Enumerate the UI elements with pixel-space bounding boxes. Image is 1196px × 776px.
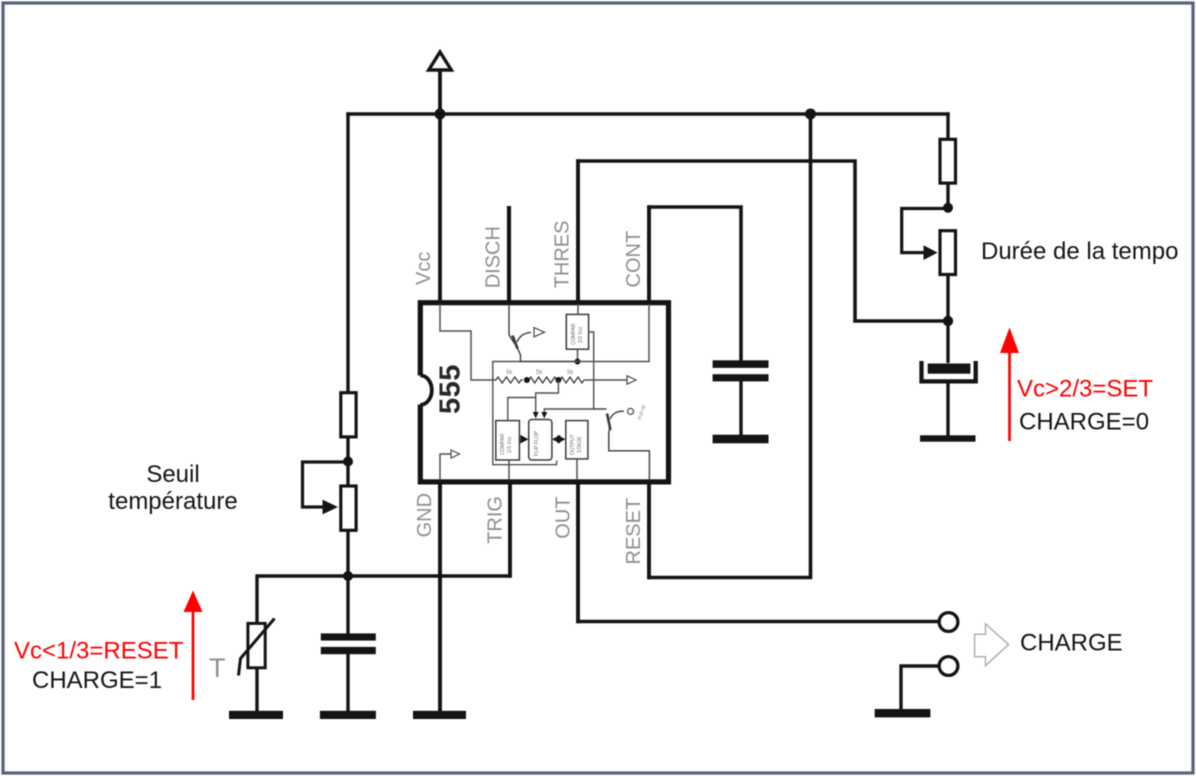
- block arrow: [975, 624, 1009, 666]
- wire: P1 to node: [346, 530, 349, 578]
- wire: C3 to ground: [946, 382, 949, 437]
- wire: U2 top hook: [508, 398, 536, 421]
- svg-text:COMPAR: COMPAR: [500, 433, 506, 455]
- svg-text:Vc>2/3=SET: Vc>2/3=SET: [1017, 376, 1153, 403]
- node: THRES/C3 junction: [943, 316, 953, 326]
- wire: CONT pin up over to C2: [647, 205, 651, 302]
- thermistor RT: [239, 619, 275, 676]
- resistor divider Rb: [529, 377, 557, 383]
- Q1 arrowhead: [534, 328, 545, 337]
- wire: RESET pin loop to supply rail: [647, 482, 651, 579]
- svg-text:2/3 Vcc: 2/3 Vcc: [578, 326, 584, 343]
- node: trigger rail junction: [343, 571, 353, 581]
- wire: GND pin internal arrow: [440, 454, 451, 480]
- resistor divider Rc: [560, 377, 586, 383]
- potentiometer P2 wiper: [902, 209, 948, 261]
- potentiometer P2: [940, 231, 956, 275]
- flip-flop U3 box: [529, 420, 552, 461]
- ground (terminal): [875, 709, 931, 717]
- svg-text:GND: GND: [414, 493, 436, 537]
- wire: OUT from U4: [576, 459, 578, 480]
- wire: C1 top: [346, 576, 349, 635]
- red arrow left: [184, 591, 203, 701]
- wire: thermistor to ground: [255, 668, 258, 712]
- wire: node to C3: [946, 320, 949, 363]
- capacitor C2: [713, 360, 769, 381]
- svg-text:Vc<1/3=RESET: Vc<1/3=RESET: [14, 638, 184, 665]
- Vcc supply symbol: [429, 52, 452, 70]
- wire: TRIG pin down: [508, 482, 512, 578]
- wire: U1 to CONT node: [577, 349, 579, 361]
- svg-text:1/3 Vcc: 1/3 Vcc: [507, 436, 513, 453]
- svg-text:5k: 5k: [536, 370, 543, 376]
- wire: trigger rail horizontal: [257, 574, 510, 577]
- ground (thermistor): [229, 711, 283, 719]
- svg-text:555: 555: [435, 364, 467, 414]
- IC 555 body: [420, 303, 668, 482]
- node: supply/Vcc junction: [435, 109, 446, 120]
- wire: reference to comparator loop: [493, 362, 578, 465]
- node: R2/P2 junction: [943, 203, 953, 213]
- svg-text:CHARGE=0: CHARGE=0: [1019, 409, 1149, 436]
- svg-text:Vcc: Vcc: [413, 252, 435, 285]
- potentiometer P1: [341, 486, 356, 530]
- svg-text:TRIG: TRIG: [485, 496, 507, 544]
- wire: right branch to R2: [946, 112, 949, 139]
- wire: THRES into U1: [577, 304, 579, 314]
- svg-text:OUTPUT: OUTPUT: [570, 434, 576, 455]
- node: CONT reference: [575, 359, 581, 365]
- svg-text:DISCH: DISCH: [483, 226, 505, 288]
- svg-text:5k: 5k: [567, 370, 574, 376]
- resistor divider Ra: [496, 377, 523, 383]
- svg-text:OUT: OUT: [553, 496, 575, 538]
- svg-text:THRES: THRES: [552, 221, 574, 289]
- wire: top supply rail: [346, 112, 949, 115]
- wire: divider tail to arrow: [586, 379, 627, 381]
- resistor R2: [940, 139, 956, 183]
- wire: left branch vertical to R1: [346, 112, 349, 392]
- IC internals: [440, 304, 649, 480]
- node: divider 2/3: [524, 377, 530, 383]
- wire: Vcc pin vertical: [438, 68, 442, 302]
- svg-text:RESET: RESET: [623, 498, 645, 565]
- capacitor C3 polarized: [922, 361, 976, 381]
- capacitor C1: [321, 633, 376, 654]
- wire: OUT pin down and right to terminal: [576, 482, 580, 623]
- svg-text:CHARGE: CHARGE: [1020, 630, 1123, 657]
- wire: CONT pin internal: [578, 304, 650, 362]
- svg-text:FLIP FLOP: FLIP FLOP: [534, 430, 540, 456]
- svg-text:CHARGE=1: CHARGE=1: [32, 667, 162, 694]
- wire: C2 to its ground: [739, 380, 742, 436]
- svg-text:Seuil: Seuil: [146, 461, 199, 488]
- wire: TRIG into U2: [508, 460, 510, 480]
- potentiometer P1 wiper: [303, 462, 349, 514]
- svg-text:5k: 5k: [506, 370, 513, 376]
- comparator U1 box: [566, 314, 588, 349]
- arrows U3 to U4: [552, 435, 560, 444]
- red arrow right: [1000, 328, 1019, 442]
- wire: THRES pin up over to right network: [576, 159, 580, 302]
- svg-text:T: T: [209, 653, 226, 683]
- node: R1/P1 junction: [343, 457, 353, 467]
- ground (C3): [920, 435, 976, 441]
- wire: R1 to P1: [346, 437, 349, 486]
- comparator U2 box: [496, 421, 520, 460]
- wire: thermistor top: [255, 574, 258, 623]
- svg-text:CONT: CONT: [623, 231, 645, 288]
- svg-text:COMPAR: COMPAR: [571, 323, 577, 345]
- wire: P2 to node: [946, 275, 949, 322]
- wire: U1 output route to flip-flop: [544, 332, 593, 414]
- IC notch: [414, 375, 432, 404]
- arrow U2 to U3: [520, 435, 528, 444]
- output stage U4 box: [566, 421, 588, 459]
- arrow into U3 a: [533, 412, 539, 419]
- wire: lower terminal to ground: [901, 666, 940, 711]
- wire: divider 1/3 to flip-flop: [536, 380, 559, 414]
- svg-text:Durée de la tempo: Durée de la tempo: [981, 238, 1178, 265]
- ground (C2): [713, 435, 769, 444]
- wire: R2 to P2: [946, 184, 949, 210]
- svg-text:STAGE: STAGE: [577, 436, 583, 453]
- svg-text:température: température: [108, 488, 237, 515]
- terminal upper: [939, 613, 958, 632]
- node: divider 1/3: [555, 377, 561, 383]
- ground (GND pin): [413, 711, 466, 719]
- Q2 emitter terminal: [628, 408, 634, 414]
- transistor Q1 discharge: [509, 304, 531, 362]
- ground (C1): [320, 711, 376, 719]
- internal gnd arrow on divider: [627, 376, 636, 384]
- internal gnd arrowhead: [451, 450, 460, 458]
- resistor R1: [341, 393, 356, 437]
- wire: C1 to ground: [346, 654, 349, 713]
- wire: DISCH stub: [507, 206, 511, 302]
- wire: GND pin down: [438, 482, 442, 712]
- wire: Q1 emitter to reference rail: [521, 361, 578, 363]
- arrow into U3 b: [541, 412, 547, 419]
- transistor Q2 output: [594, 409, 650, 480]
- wire: internal Vcc feed: [440, 304, 496, 380]
- node: RESET rail junction: [805, 109, 816, 120]
- terminal lower: [939, 657, 958, 676]
